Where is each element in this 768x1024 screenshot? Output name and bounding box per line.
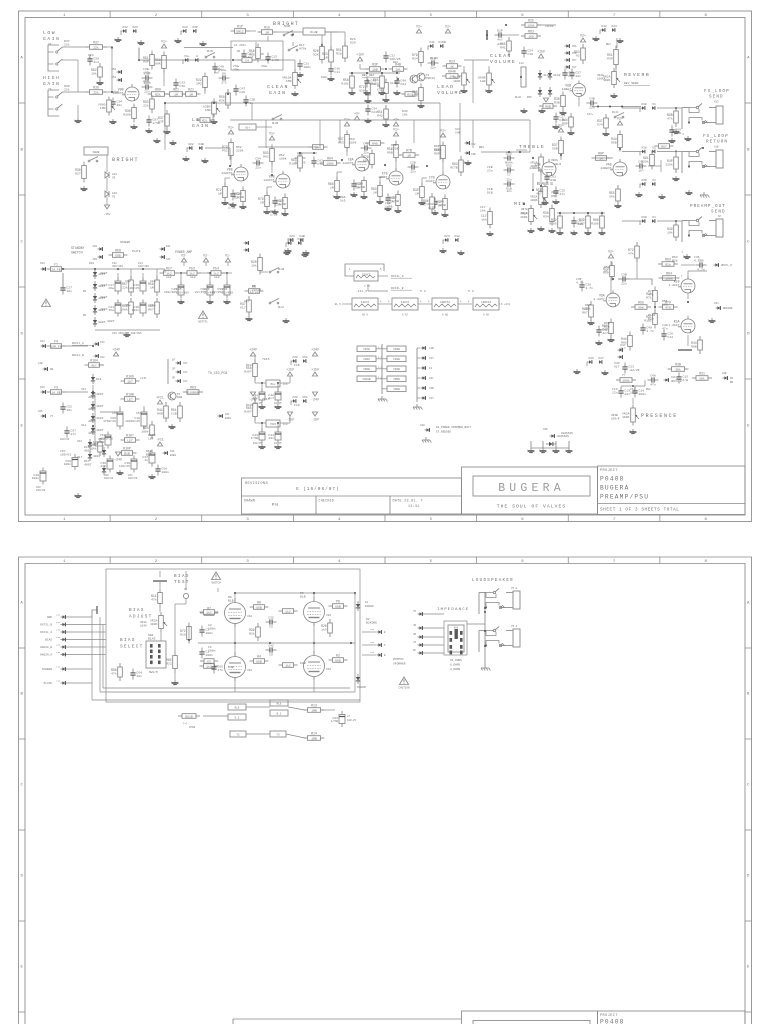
svg-text:V2+: V2+ [580, 33, 586, 37]
svg-text:75 8: 75 8 [511, 587, 518, 590]
wire preamp bus [622, 220, 640, 222]
capacitor C36 PI [696, 258, 707, 271]
wire R64 to V5B [661, 277, 676, 279]
svg-text:LE7: LE7 [127, 438, 133, 442]
power rail -24V reg [249, 392, 257, 402]
junction [62, 268, 64, 270]
wire R37 out [104, 46, 112, 48]
wire to R3P [360, 68, 368, 70]
ground R67 [587, 320, 594, 325]
ground X4B mid [201, 158, 208, 163]
junction [385, 68, 387, 70]
resistor R109 fill mid a [289, 152, 302, 172]
svg-text:GAIN: GAIN [269, 90, 287, 96]
svg-text:13:31: 13:31 [408, 505, 420, 509]
jack fx loop return junction [688, 166, 690, 168]
relay RL7 a [270, 700, 288, 706]
page2 grid tick top 7 [659, 557, 661, 564]
junction grid 4 [341, 159, 343, 161]
tube V9B stage 3 [263, 171, 290, 188]
svg-text:X21: X21 [225, 413, 230, 416]
svg-text:1k2: 1k2 [285, 609, 291, 613]
value labels [244, 299, 250, 303]
svg-text:1kw: 1kw [150, 279, 156, 283]
svg-text:CP: CP [261, 53, 265, 56]
svg-text:12BX7A: 12BX7A [440, 301, 450, 304]
svg-text:10k: 10k [667, 231, 673, 235]
power rail -15V row2 b [311, 412, 319, 422]
capacitor C12 body [377, 79, 388, 98]
wire +15 down [359, 64, 361, 69]
diode psu x [102, 465, 106, 475]
ground fx send [684, 136, 691, 141]
wire rail fill right mid [557, 212, 605, 214]
svg-text:1M: 1M [174, 92, 178, 96]
svg-text:X31: X31 [297, 237, 303, 241]
junction [232, 59, 234, 61]
wire RL6-RL7 [246, 706, 270, 708]
connector X5 imp 4 [418, 643, 423, 647]
svg-text:1K0: 1K0 [528, 34, 534, 38]
svg-text:R107: R107 [244, 410, 252, 414]
wire rail fill mid a [297, 152, 317, 154]
resistor grid stage 3 [258, 192, 269, 211]
switch RL3C [205, 53, 215, 58]
svg-text:BRIGHT: BRIGHT [112, 157, 139, 163]
resistor R82 [616, 378, 636, 383]
junction [523, 203, 525, 205]
junction [92, 345, 94, 347]
svg-text:4007: 4007 [100, 283, 108, 287]
jack speaker 2 junction [485, 645, 487, 647]
wire rail fill topcenter [349, 72, 400, 74]
resistor R9P [592, 152, 611, 161]
svg-text:100/25: 100/25 [128, 286, 139, 290]
svg-text:THE SOUL OF VALVES: THE SOUL OF VALVES [497, 504, 566, 510]
svg-text:V2+: V2+ [608, 249, 614, 253]
VR box left 2 [357, 356, 376, 362]
capacitor input a [87, 55, 99, 66]
junction grid 5 [384, 164, 386, 166]
capacitor C25 [195, 282, 213, 299]
svg-text:22k: 22k [143, 104, 149, 108]
svg-text:1P: 1P [172, 359, 176, 362]
svg-text:X30: X30 [641, 102, 647, 106]
svg-text:1MD: 1MD [286, 79, 292, 83]
svg-text:C28: C28 [239, 90, 245, 94]
wire PI interconnect [618, 279, 652, 285]
ground master 1 [520, 108, 527, 113]
capacitor C57 [64, 427, 76, 438]
svg-text:C1B: C1B [430, 56, 436, 60]
grid tick bottom 2 [201, 515, 203, 522]
wire fil 1 [378, 303, 392, 305]
svg-text:CHASSIS: CHASSIS [561, 432, 573, 435]
svg-text:100/63: 100/63 [60, 452, 71, 456]
svg-text:R6B: R6B [545, 104, 551, 108]
svg-text:0.2: 0.2 [235, 717, 240, 720]
wire bright bus [139, 59, 231, 61]
svg-text:BIAS: BIAS [174, 574, 190, 579]
svg-text:22n: 22n [144, 90, 150, 94]
value labels [228, 665, 234, 669]
resistor R66 bleed [120, 298, 133, 318]
svg-text:10k: 10k [251, 264, 257, 268]
capacitor E1P [495, 28, 506, 41]
svg-text:V1+: V1+ [245, 127, 250, 130]
svg-text:1M: 1M [330, 186, 334, 190]
ground [114, 37, 121, 42]
svg-text:50K: 50K [638, 305, 644, 309]
svg-text:16w: 16w [125, 279, 131, 283]
ground X17 [601, 370, 608, 375]
wire dropper a [176, 272, 187, 274]
svg-text:C53: C53 [112, 411, 118, 415]
svg-text:ADJUST: ADJUST [129, 615, 153, 620]
svg-text:+FIL: +FIL [140, 377, 147, 380]
value labels [166, 275, 172, 279]
potentiometer treble VR6A [530, 154, 547, 175]
value labels [136, 411, 142, 415]
ground T1 [417, 103, 424, 108]
tube C7B stage 6 [425, 172, 450, 189]
connector col 2 [421, 356, 426, 360]
svg-text:5 4: 5 4 [420, 289, 426, 293]
chassis ground bolt [422, 437, 431, 443]
ground clean vol [485, 88, 492, 93]
connector X26 [41, 414, 46, 418]
svg-text:R64: R64 [666, 272, 672, 276]
impedance contact L4 [450, 651, 453, 655]
svg-text:B1AS: B1AS [148, 636, 156, 640]
wire plate V4A [234, 593, 236, 602]
fuse F3 [47, 386, 66, 395]
svg-text:1M: 1M [324, 56, 328, 60]
ground [199, 41, 206, 46]
grid tick top 2 [201, 11, 203, 18]
wire X16 1 [362, 631, 376, 633]
grid tick bottom 7 [659, 515, 661, 522]
ground R4P [672, 176, 679, 181]
svg-text:47k: 47k [111, 672, 117, 676]
power rail V1+ vol b [445, 24, 451, 33]
svg-text:R3P: R3P [607, 57, 613, 61]
svg-text:R5B: R5B [611, 141, 617, 145]
ground C11 [327, 76, 334, 81]
svg-text:4007: 4007 [93, 454, 101, 458]
svg-text:22n: 22n [506, 190, 511, 193]
svg-text:C11: C11 [334, 70, 340, 74]
value labels [88, 53, 94, 60]
svg-text:10k: 10k [395, 67, 401, 71]
svg-text:C64: C64 [400, 82, 406, 86]
diode chassis [546, 442, 556, 446]
connector X15 RCFIL_B [61, 623, 66, 627]
svg-text:F1: F1 [54, 263, 58, 267]
ground X23 b [439, 248, 446, 253]
svg-text:C2B: C2B [410, 160, 416, 164]
wire c25 up [209, 273, 211, 283]
value labels [262, 357, 270, 361]
svg-text:PH: PH [272, 504, 279, 508]
resistor psu x1 [89, 438, 102, 456]
wire grid 2 [224, 178, 226, 185]
page2 grid tick right [745, 738, 752, 740]
wire input junction [111, 47, 113, 92]
power rail stage 6 [440, 128, 446, 137]
junction fill right mid5 [559, 212, 561, 214]
capacitor C24 x [365, 105, 377, 116]
wire C53 up [119, 406, 121, 410]
wire R1P-R16 [249, 30, 256, 32]
diode D14b [91, 425, 104, 435]
page1 border inner [25, 18, 745, 516]
svg-text:22/450: 22/450 [222, 290, 233, 294]
value labels [487, 165, 493, 172]
VR box left 3 [357, 366, 376, 372]
wire F1 out [63, 268, 93, 270]
diode rectifier 1 [93, 269, 106, 279]
svg-text:4.7n: 4.7n [694, 258, 702, 262]
svg-text:AL7: AL7 [240, 306, 246, 310]
junction [234, 592, 236, 594]
connector X24 b [41, 344, 46, 348]
svg-text:CB: CB [237, 50, 241, 53]
svg-text:B2b: B2b [604, 324, 610, 328]
wire C41 out [648, 165, 661, 167]
value labels [672, 255, 678, 262]
svg-text:22n: 22n [430, 66, 436, 70]
svg-text:10n: 10n [268, 436, 274, 440]
connector pair X30 X1 return [640, 145, 656, 155]
svg-text:R99: R99 [155, 88, 161, 92]
svg-text:R21: R21 [188, 88, 194, 92]
jack J1 low gain [48, 45, 62, 71]
svg-text:B.2: B.2 [277, 713, 282, 716]
svg-text:1P1B: 1P1B [189, 726, 196, 729]
wire bias test [159, 581, 161, 588]
svg-text:X1B: X1B [714, 146, 719, 149]
svg-text:B1B: B1B [146, 452, 152, 456]
wire fil 3 [458, 303, 472, 305]
potentiometer VR1A bias [150, 612, 167, 632]
resistor R34 [543, 205, 554, 226]
svg-text:RCFIL_B: RCFIL_B [40, 624, 52, 627]
wire R20-RL1B [260, 271, 268, 273]
title block logo box [462, 467, 598, 514]
resistor R14 p2 [304, 732, 325, 741]
svg-text:PREAMP/PSU: PREAMP/PSU [600, 494, 649, 501]
svg-text:X4B: X4B [198, 142, 204, 146]
wire clean bus [230, 119, 530, 121]
svg-text:R34: R34 [543, 215, 549, 219]
svg-text:10000/25: 10000/25 [125, 419, 140, 423]
grid tick top 7 [659, 11, 661, 18]
resistor screen V2A [329, 600, 348, 609]
resistor R5B plate b [611, 131, 622, 152]
capacitor C2B [243, 96, 255, 107]
ground rev 1 [364, 98, 371, 103]
resistor grid V4A [200, 610, 219, 615]
resistor R63 [521, 30, 541, 39]
impedance contact R1 [460, 631, 463, 635]
svg-text:GAIN: GAIN [192, 123, 210, 129]
wire R3P down [615, 65, 617, 71]
ground star b [539, 448, 546, 453]
VR box left 1 [357, 346, 376, 352]
resistor R108 fill right mid [591, 212, 604, 232]
capacitor C7 tone [504, 163, 515, 176]
svg-text:E1P: E1P [497, 28, 503, 32]
junction [92, 391, 94, 393]
value labels [246, 363, 254, 367]
wire to clean pot top [234, 59, 295, 61]
transistor T1 KSP44 [417, 73, 435, 81]
power rail V2 [203, 253, 209, 262]
resistor cathode stage 6 [436, 195, 447, 214]
svg-text:SEND: SEND [711, 210, 726, 215]
resistor K91 [363, 150, 374, 169]
value labels [480, 205, 486, 212]
svg-text:1/5B: 1/5B [236, 195, 244, 199]
capacitor C38 [142, 80, 153, 93]
resistor R8B pi [691, 336, 702, 354]
resistor R91 [641, 151, 654, 170]
tube X7B stage 5 [378, 168, 403, 185]
wire xpair to stage [205, 147, 230, 149]
ground C45 [552, 124, 559, 129]
svg-text:4k7: 4k7 [91, 363, 97, 367]
resistor P52 plate stage 2 [222, 139, 233, 160]
svg-text:VR9B: VR9B [363, 368, 370, 371]
wire R12 gnd [174, 672, 176, 680]
capacitor C39 PI [579, 281, 593, 292]
wire bus join a [251, 103, 253, 120]
resistor R63 PI [658, 258, 678, 267]
jack fx loop return tip contact [696, 150, 698, 152]
switch RL1C [269, 299, 279, 304]
svg-text:X24: X24 [100, 356, 105, 359]
svg-text:100k: 100k [279, 156, 287, 160]
svg-text:.02/25: .02/25 [628, 368, 639, 372]
wire pot lead [463, 66, 465, 73]
svg-text:LOUDSPEAKER: LOUDSPEAKER [472, 579, 514, 583]
svg-text:4007: 4007 [96, 404, 104, 408]
junction [142, 268, 144, 270]
svg-text:1M: 1M [189, 92, 193, 96]
svg-text:X5A: X5A [572, 45, 577, 48]
value labels [299, 43, 307, 50]
junction [619, 148, 621, 150]
svg-text:R67: R67 [148, 308, 154, 312]
impedance switch outer box [444, 621, 467, 655]
wire fil 2 [418, 303, 432, 305]
revisions divider [242, 495, 462, 497]
svg-text:220k: 220k [236, 148, 244, 152]
resistor K3 [200, 659, 218, 664]
resistor R13 [401, 92, 419, 97]
svg-text:7815: 7815 [262, 357, 270, 361]
svg-text:R10: R10 [180, 633, 186, 637]
svg-text:P54: P54 [213, 267, 219, 271]
svg-text:4007: 4007 [88, 419, 96, 423]
svg-text:X41: X41 [429, 40, 435, 44]
wire cath V1A [313, 677, 315, 692]
resistor R103 fill topcenter [371, 72, 384, 92]
fuse BU1B [178, 714, 200, 719]
drawn/checked divider 1 [315, 496, 317, 514]
svg-text:1/5B: 1/5B [251, 436, 259, 440]
capacitor C9 p2 [266, 643, 277, 656]
svg-text:C48: C48 [650, 373, 656, 377]
svg-text:VR3B: VR3B [393, 358, 400, 361]
wire lead drop b [319, 120, 321, 147]
svg-text:1A_SB: 1A_SB [51, 390, 60, 394]
wire v1 tri [227, 262, 229, 266]
grid tick left 3 [19, 286, 26, 288]
svg-text:(+): (+) [183, 722, 188, 725]
svg-text:X33: X33 [132, 25, 138, 29]
wire V3B plate [560, 155, 562, 160]
page2 grid tick left [19, 829, 26, 831]
ground R27 [80, 186, 87, 191]
value labels [294, 363, 300, 367]
svg-text:100/63: 100/63 [36, 488, 46, 492]
capacitor C59 [142, 450, 155, 467]
svg-text:1/5B: 1/5B [391, 199, 399, 203]
ground cathode cap stage 5 [384, 206, 391, 211]
switch RL4C [614, 113, 624, 118]
svg-text:100n: 100n [208, 626, 216, 630]
wire fil in [342, 303, 352, 305]
power rail stage 4 [344, 117, 350, 126]
svg-text:X51: X51 [302, 395, 308, 399]
ground X22 mid [182, 156, 189, 161]
ground preamp out [683, 254, 690, 259]
jack fx loop send contact loop [689, 108, 699, 113]
junction [560, 154, 562, 156]
connector X27 pin 2 [176, 370, 181, 374]
connector X5b [244, 248, 249, 252]
jack speaker 1 feed wire [479, 592, 486, 594]
svg-text:V1+: V1+ [416, 24, 422, 28]
power rail +24V reg [249, 347, 257, 356]
connector X5 imp 3 [418, 635, 423, 639]
svg-text:220k: 220k [641, 160, 649, 164]
wire C27 up [62, 273, 64, 283]
value labels [100, 283, 108, 287]
capacitor C22 [383, 52, 400, 63]
svg-text:V1+: V1+ [344, 117, 350, 121]
svg-text:12AX7: 12AX7 [401, 301, 410, 304]
resistor R38 [86, 86, 107, 95]
svg-text:47n: 47n [662, 326, 668, 330]
junction [261, 382, 263, 384]
wire lead drop a [265, 120, 267, 148]
svg-text:C35: C35 [268, 615, 274, 619]
wire imp 2 [423, 627, 444, 629]
page1 border outer [19, 11, 752, 522]
capacitor cathode stage 6 [432, 198, 446, 209]
svg-text:SW2B: SW2B [93, 151, 100, 154]
svg-text:R82: R82 [646, 388, 651, 391]
svg-text:X24: X24 [40, 340, 45, 343]
svg-text:R16: R16 [264, 26, 270, 30]
svg-text:D14: D14 [81, 424, 86, 427]
resistor R106 [121, 375, 140, 384]
impedance contact L3 [450, 645, 453, 649]
wire jack1 sleeve [62, 59, 78, 61]
